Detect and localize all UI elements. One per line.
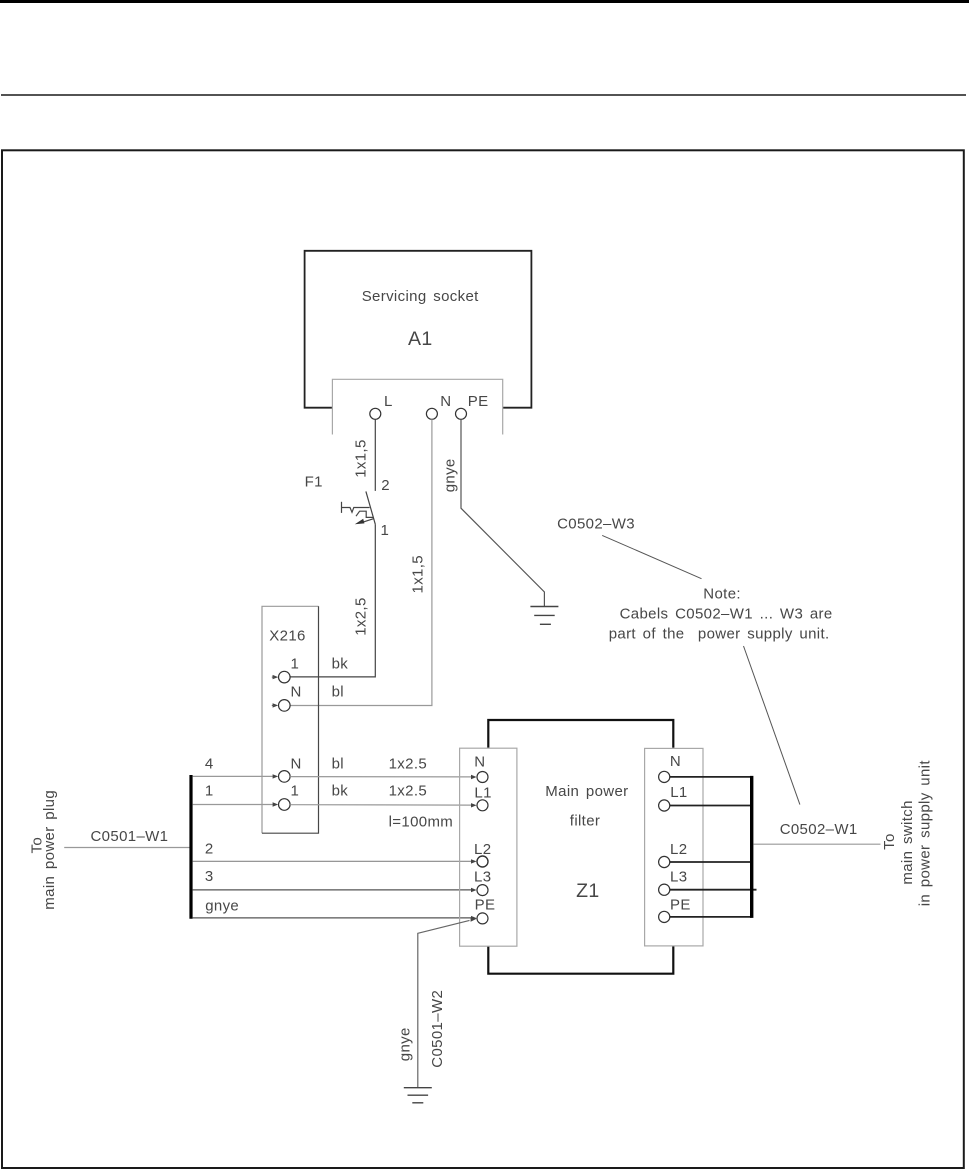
label To (left) <box>28 837 45 854</box>
label 1x1,5 on wire N <box>410 555 427 593</box>
svg-text:l=100mm: l=100mm <box>389 814 454 831</box>
svg-text:L1: L1 <box>670 784 687 801</box>
label gnye (C0501-W2) <box>396 1027 413 1061</box>
label To (right) <box>881 833 898 850</box>
wire gnye from bracket to filter PE <box>193 898 477 921</box>
label C0502-W3 <box>557 515 635 532</box>
svg-text:F1: F1 <box>305 474 323 491</box>
svg-text:L2: L2 <box>670 841 687 858</box>
svg-text:1x2.5: 1x2.5 <box>389 755 427 772</box>
wire L from A1 to breaker pin 2 <box>374 419 376 491</box>
wire 2 from bracket to filter L2 <box>193 841 477 864</box>
label bk (upper) <box>332 655 349 672</box>
filter terminal L1 (left) <box>474 785 491 811</box>
svg-text:C0501–W1: C0501–W1 <box>91 828 169 845</box>
svg-text:bl: bl <box>332 755 344 772</box>
label 1x2.5 (L1 row) <box>389 783 427 800</box>
note text <box>609 585 833 642</box>
svg-text:N: N <box>291 755 302 772</box>
filter left connector outline <box>460 748 517 946</box>
label 1x2,5 on wire to X216 <box>352 597 369 635</box>
svg-text:1: 1 <box>291 783 300 800</box>
svg-text:N: N <box>440 393 451 410</box>
svg-text:bk: bk <box>332 655 349 672</box>
svg-text:filter: filter <box>570 812 600 829</box>
leader line from note to C0502-W1 <box>744 646 800 805</box>
label bl (upper) <box>332 684 344 701</box>
label main power plug <box>41 790 58 910</box>
cable bracket bar (right) <box>750 776 753 918</box>
svg-text:1: 1 <box>205 783 214 800</box>
svg-text:Servicing socket: Servicing socket <box>362 288 479 305</box>
terminal L of A1 <box>370 393 393 419</box>
svg-text:Cabels C0502–W1 ... W3 are: Cabels C0502–W1 ... W3 are <box>620 605 833 622</box>
wire PE right to bracket <box>670 916 752 918</box>
svg-text:PE: PE <box>475 897 496 914</box>
cable bracket bar (left) <box>189 775 192 919</box>
svg-text:4: 4 <box>205 755 214 772</box>
wire 3 from bracket to filter L3 <box>193 868 477 892</box>
svg-text:bk: bk <box>332 783 349 800</box>
svg-text:bl: bl <box>332 684 344 701</box>
svg-text:C0502–W3: C0502–W3 <box>557 515 635 532</box>
svg-text:A1: A1 <box>408 328 433 350</box>
label 1x2.5 (N row) <box>389 755 427 772</box>
wire X216 N to filter N <box>290 775 476 779</box>
header separator rule <box>1 94 966 96</box>
wire from breaker pin 1 to X216 terminal 1 <box>290 524 375 677</box>
X216 terminal 1 (upper) <box>272 655 299 683</box>
svg-text:PE: PE <box>468 393 489 410</box>
svg-text:gnye: gnye <box>205 898 239 915</box>
filter terminal L2 (right) <box>659 841 688 868</box>
svg-text:C0501–W2: C0501–W2 <box>429 990 446 1068</box>
svg-text:Note:: Note: <box>703 585 741 602</box>
svg-text:Z1: Z1 <box>576 880 599 902</box>
label bl (lower) <box>332 755 344 772</box>
wire L3 right to bracket <box>670 889 757 891</box>
filter terminal L3 (right) <box>659 868 688 895</box>
svg-text:1: 1 <box>381 522 390 539</box>
label l=100mm <box>389 814 454 831</box>
earth ground symbol (A1 PE) <box>530 607 558 625</box>
svg-text:N: N <box>670 753 681 770</box>
filter terminal PE (right) <box>659 896 691 922</box>
wire 4 from bracket to X216 N <box>193 755 279 778</box>
svg-text:C0502–W1: C0502–W1 <box>780 821 858 838</box>
filter terminal PE (left) <box>475 897 496 924</box>
terminal block X216 <box>262 606 319 833</box>
terminal N of A1 <box>426 393 451 419</box>
svg-text:PE: PE <box>670 896 691 913</box>
svg-text:To: To <box>881 833 898 850</box>
svg-text:1: 1 <box>291 655 300 672</box>
svg-text:Main power: Main power <box>545 783 628 800</box>
svg-text:in power supply unit: in power supply unit <box>917 760 934 907</box>
filter terminal L2 (left) <box>474 841 491 867</box>
svg-text:main power plug: main power plug <box>41 790 58 910</box>
wire N right to bracket <box>670 776 752 778</box>
svg-text:L3: L3 <box>474 869 491 886</box>
wire L1 right to bracket <box>670 805 752 807</box>
cable C0502-W1 stub <box>753 821 880 844</box>
filter terminal N (right) <box>659 753 681 782</box>
filter right connector outline <box>645 748 703 946</box>
leader line from C0502-W3 to note <box>602 535 701 578</box>
wire N from A1 to X216 terminal N <box>290 419 432 705</box>
main power filter Z1 box <box>488 720 673 974</box>
wire PE from A1 to earth <box>461 419 544 606</box>
wire 1 from bracket to X216 1 <box>193 783 279 807</box>
cable C0501-W1 stub <box>64 828 189 847</box>
svg-text:L3: L3 <box>670 868 687 885</box>
label C0501-W2 <box>429 990 446 1068</box>
label in power supply unit <box>917 760 934 907</box>
breaker F1 <box>305 474 390 540</box>
X216 terminal N (upper) <box>272 684 302 712</box>
svg-text:N: N <box>474 754 485 771</box>
filter terminal N (left) <box>474 754 488 783</box>
svg-text:1x2,5: 1x2,5 <box>352 597 369 635</box>
svg-text:2: 2 <box>381 477 390 494</box>
svg-text:N: N <box>291 684 302 701</box>
servicing socket A1 <box>305 251 532 408</box>
X216 terminal N (lower) <box>279 755 302 782</box>
title bar top rule <box>0 0 969 3</box>
svg-text:X216: X216 <box>269 628 305 645</box>
svg-text:L2: L2 <box>474 841 491 858</box>
svg-text:L: L <box>384 393 393 410</box>
filter terminal L1 (right) <box>659 784 688 811</box>
svg-text:2: 2 <box>205 841 214 858</box>
label 1x1,5 on wire L <box>352 439 369 477</box>
label bk (lower) <box>332 783 349 800</box>
label gnye on wire PE <box>441 458 458 492</box>
wire C0501-W2 gnye to filter PE <box>418 917 477 1087</box>
svg-text:main switch: main switch <box>899 800 916 884</box>
svg-text:gnye: gnye <box>441 458 458 492</box>
svg-text:L1: L1 <box>474 785 491 802</box>
svg-text:1x2.5: 1x2.5 <box>389 783 427 800</box>
svg-text:gnye: gnye <box>396 1027 413 1061</box>
label main switch <box>899 800 916 884</box>
wire X216 1 to filter L1 <box>290 803 476 807</box>
X216 terminal 1 (lower) <box>279 783 300 811</box>
filter terminal L3 (left) <box>474 869 491 896</box>
connector of A1 (socket outline) <box>332 379 502 434</box>
svg-text:1x1,5: 1x1,5 <box>410 555 427 593</box>
terminal PE of A1 <box>456 393 489 419</box>
svg-text:1x1,5: 1x1,5 <box>352 439 369 477</box>
svg-text:3: 3 <box>205 868 214 885</box>
svg-text:part of the power supply unit: part of the power supply unit. <box>609 626 830 643</box>
wire L2 right to bracket <box>670 861 752 863</box>
earth ground symbol (C0501-W2) <box>404 1088 432 1103</box>
